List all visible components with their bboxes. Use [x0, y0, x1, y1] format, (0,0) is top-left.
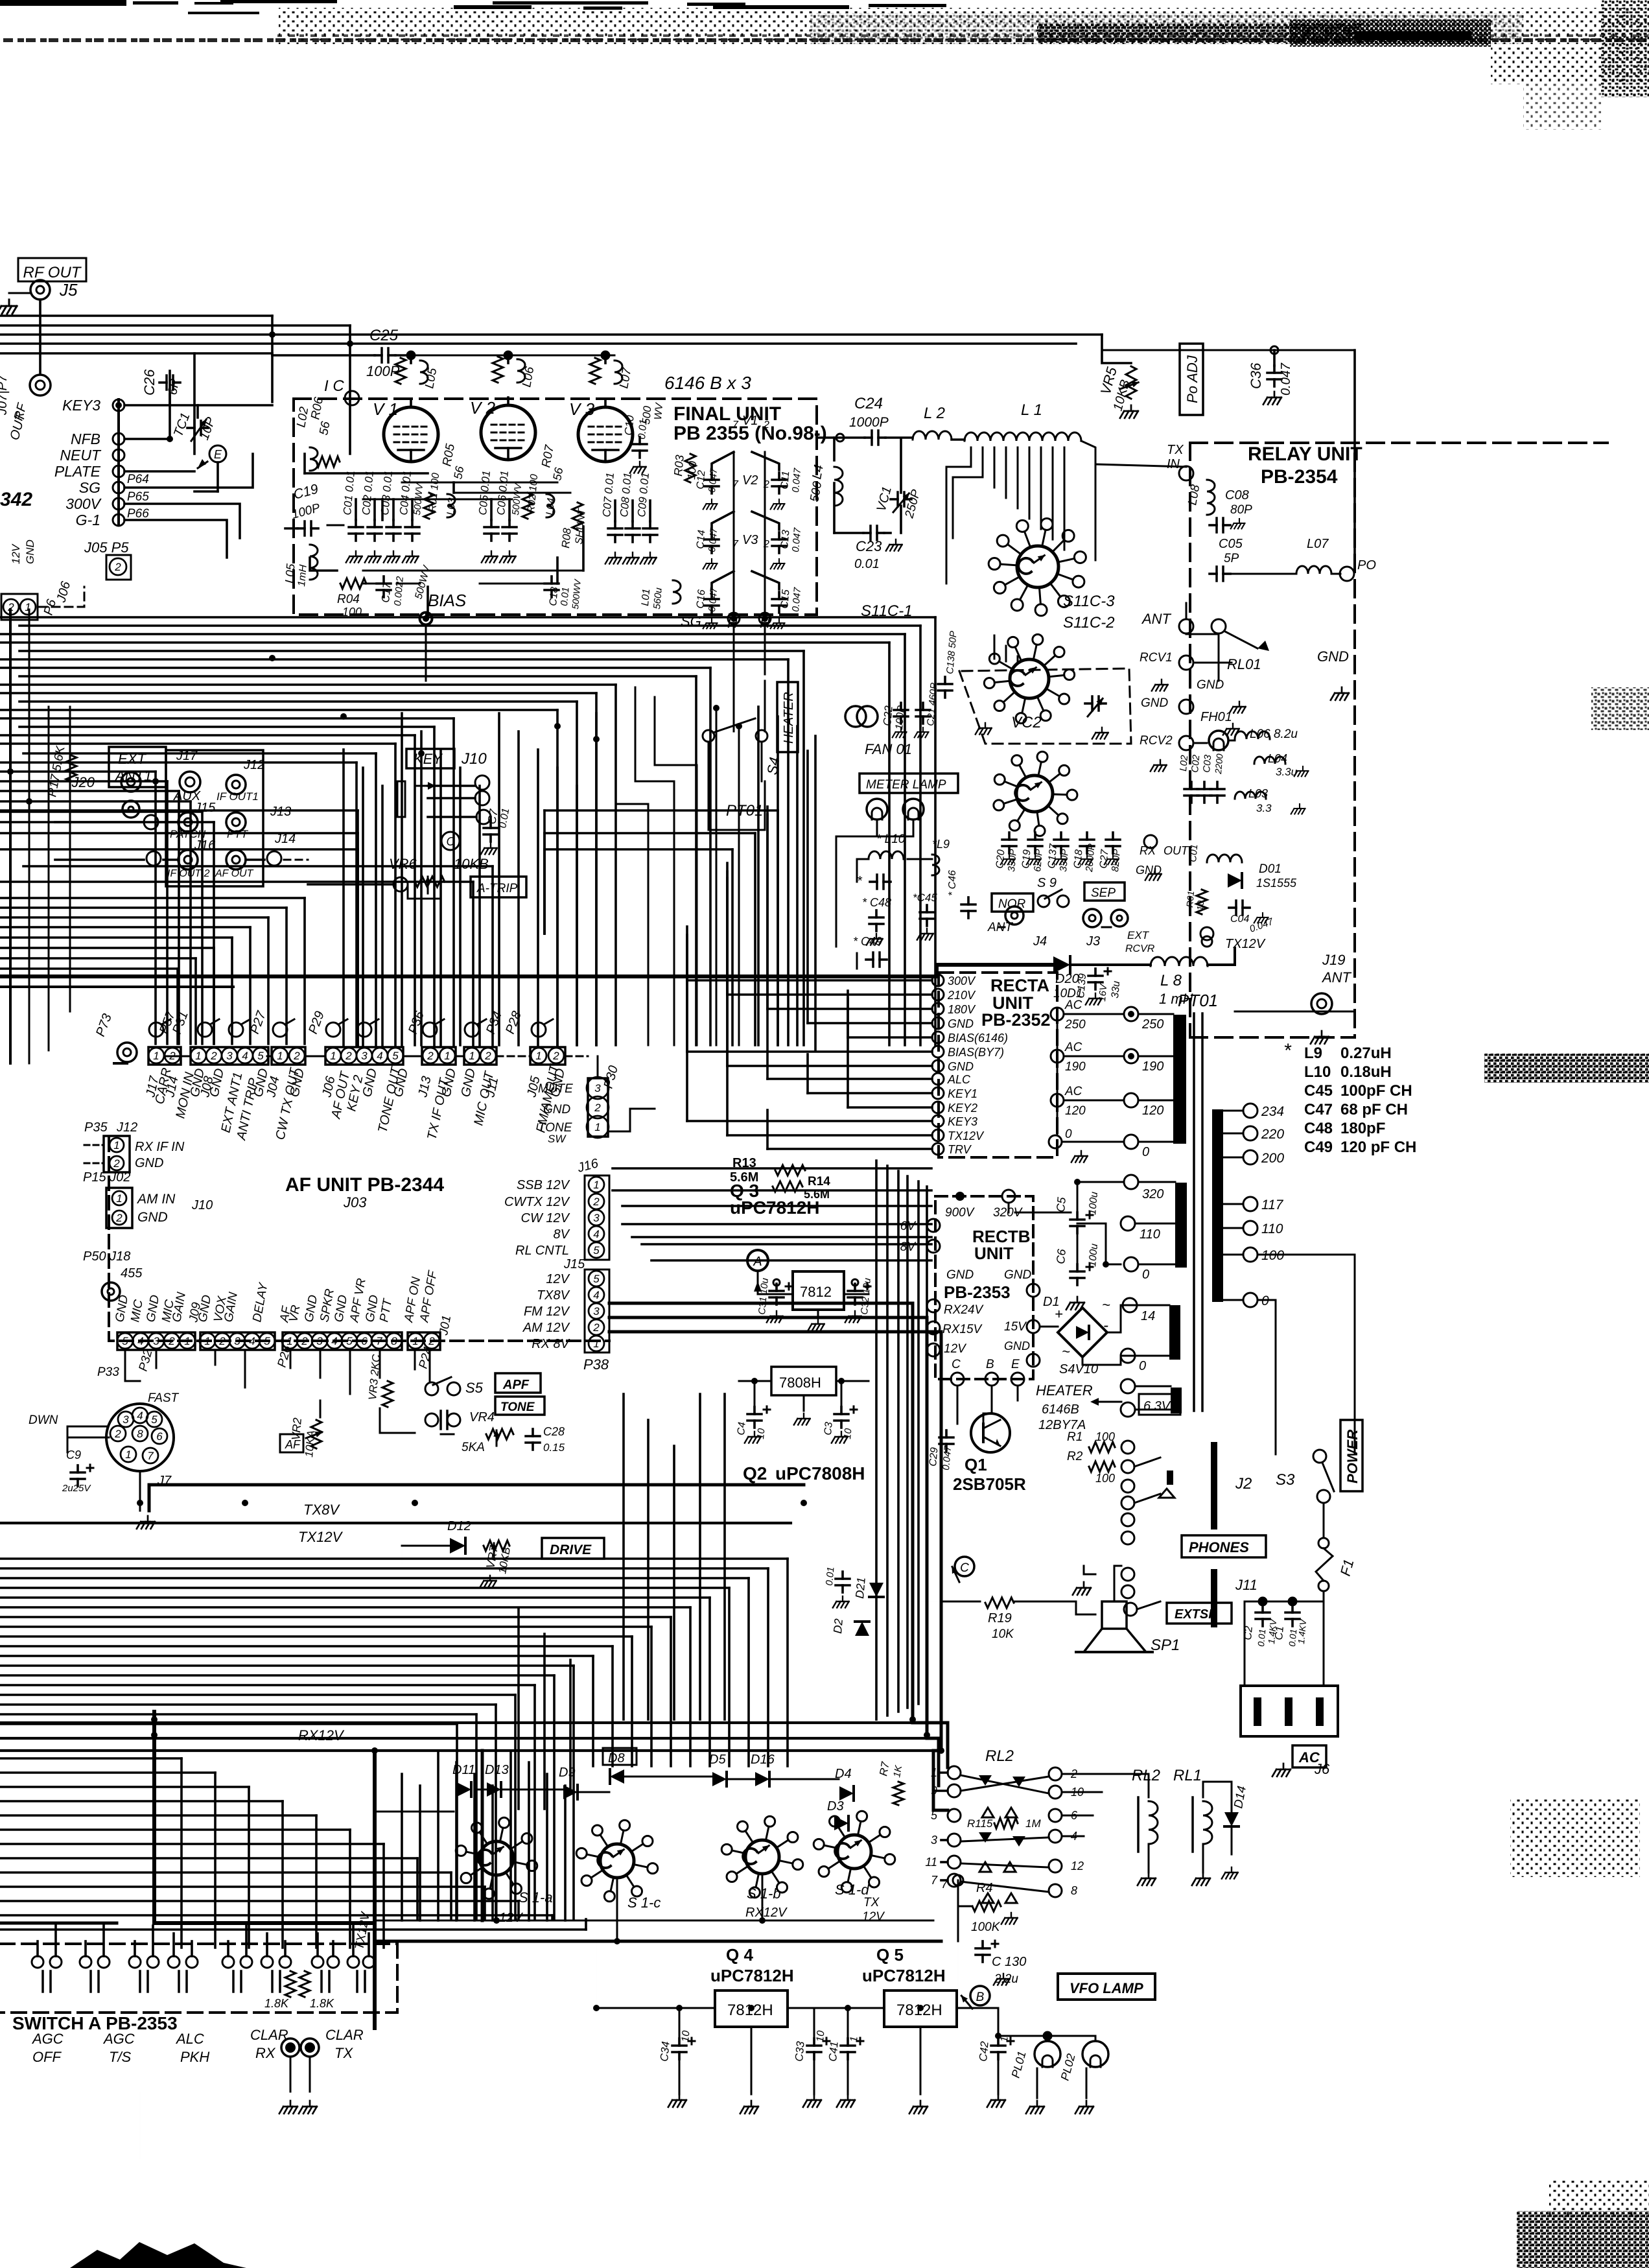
svg-text:C33: C33 [793, 2040, 807, 2062]
capacitor C139 33u [1075, 968, 1122, 1005]
svg-text:1: 1 [287, 1335, 292, 1347]
svg-text:5: 5 [257, 1050, 264, 1062]
wire plate feeds [411, 355, 614, 357]
svg-text:10: 10 [1195, 900, 1206, 911]
tank taps to bandswitch [970, 447, 972, 467]
svg-text:J10: J10 [191, 1198, 213, 1212]
jack AUX J17 [173, 749, 201, 803]
transformer PT01 primary bar [1173, 1015, 1186, 1144]
svg-text:68 pF CH: 68 pF CH [1340, 1101, 1408, 1118]
svg-text:G-1: G-1 [76, 512, 100, 528]
svg-text:10KA: 10KA [303, 1430, 318, 1458]
wire verticals mid lower [624, 1394, 725, 1719]
svg-text:1: 1 [593, 1338, 599, 1350]
label AC boxed [1292, 1745, 1326, 1767]
label METER LAMP boxed [860, 774, 958, 793]
wire L1 right end down [1081, 441, 1095, 560]
svg-text:10KB: 10KB [454, 856, 489, 872]
svg-text:ANT: ANT [1141, 611, 1172, 627]
svg-text:4: 4 [593, 1289, 599, 1301]
svg-text:4: 4 [137, 1335, 143, 1347]
diode D2 [831, 1618, 869, 1636]
svg-text:C12: C12 [695, 470, 708, 490]
diode D20 10D1 [1053, 956, 1082, 1000]
svg-text:3: 3 [234, 1335, 240, 1347]
svg-text:0: 0 [1142, 1145, 1149, 1159]
svg-text:12V: 12V [546, 1272, 570, 1286]
wire bus top-left horizontals [0, 314, 272, 317]
svg-text:J15: J15 [194, 801, 216, 815]
svg-text:J05 P5: J05 P5 [84, 539, 129, 556]
resistor R17 5.6K [45, 744, 76, 798]
svg-text:BIAS(6146): BIAS(6146) [948, 1032, 1008, 1045]
phone jack J2 body [1211, 1442, 1217, 1530]
svg-text:*C45: *C45 [913, 892, 937, 904]
svg-text:180V: 180V [948, 1003, 976, 1016]
svg-text:GND: GND [1136, 864, 1162, 877]
svg-text:C: C [952, 1358, 961, 1371]
resistor R04 100 [337, 578, 366, 619]
svg-text:0.01: 0.01 [1256, 1629, 1267, 1648]
resistor R14 5.6M [773, 1175, 830, 1201]
node E circled [209, 445, 226, 462]
svg-text:1.8K: 1.8K [310, 1997, 334, 2010]
svg-text:4: 4 [242, 1050, 248, 1062]
svg-text:3: 3 [226, 1050, 233, 1062]
svg-text:GND: GND [1141, 696, 1169, 710]
wire tank bottoms [833, 438, 836, 460]
svg-text:2: 2 [592, 1196, 600, 1208]
capacitor C33 10 [793, 2030, 830, 2107]
svg-text:TX: TX [334, 2045, 353, 2061]
svg-text:100u: 100u [1087, 1243, 1100, 1267]
svg-text:C22: C22 [881, 705, 895, 726]
svg-text:2: 2 [113, 1157, 120, 1170]
terminal 250 at PT01 [1124, 1007, 1138, 1021]
svg-text:MUTE: MUTE [538, 1082, 573, 1096]
inductor L07 relay [1296, 537, 1331, 574]
svg-text:D20: D20 [1055, 972, 1079, 986]
capacitor C26 6P [141, 369, 182, 396]
svg-text:0: 0 [1139, 1359, 1146, 1373]
svg-text:620P: 620P [1032, 849, 1045, 872]
capacitor C1 0.01 1.4KV [1272, 1605, 1308, 1647]
wire contact feeds switch A [38, 1926, 369, 1956]
resistor 1.8K right [299, 1971, 334, 2010]
svg-text:120: 120 [1142, 1104, 1164, 1118]
svg-text:A: A [753, 1255, 762, 1269]
svg-text:110: 110 [1140, 1227, 1160, 1242]
svg-text:D5: D5 [709, 1753, 726, 1767]
caps row C20 C19 C137 C18 C27 [994, 833, 1019, 872]
svg-text:2: 2 [293, 1050, 300, 1062]
svg-text:0.01: 0.01 [559, 587, 571, 607]
svg-text:OFF: OFF [32, 2049, 62, 2065]
svg-text:S 1-c: S 1-c [627, 1895, 661, 1911]
svg-text:C42: C42 [977, 2040, 991, 2062]
svg-text:3: 3 [123, 1413, 129, 1426]
svg-text:7: 7 [732, 419, 739, 431]
svg-text:C08: C08 [1225, 488, 1249, 502]
terminal small left of PATCH [144, 815, 158, 829]
dashed frame VC2 [959, 668, 1131, 744]
svg-text:1: 1 [204, 1335, 210, 1347]
svg-text:METER LAMP: METER LAMP [866, 778, 946, 792]
wire speaker [1114, 1566, 1116, 1601]
capacitor C10 0.01 [622, 414, 649, 473]
label EXTSP boxed [1167, 1603, 1232, 1624]
AC connector [1241, 1686, 1338, 1736]
svg-text:RF OUT: RF OUT [23, 264, 82, 281]
wire mesh horizontal bundle upper [0, 617, 935, 1045]
resistor R08 SHUNT [559, 502, 588, 549]
svg-text:GND: GND [24, 539, 36, 564]
resistor R115 1M [967, 1817, 1041, 1830]
inductor L4 500 [808, 464, 843, 506]
svg-text:L 1: L 1 [1021, 401, 1042, 419]
RL2 contacts left column [925, 1766, 961, 1887]
wire D20 to L8 to TX12V [940, 963, 1053, 966]
svg-text:6V: 6V [900, 1220, 917, 1233]
svg-text:L 2: L 2 [924, 405, 945, 422]
svg-text:4: 4 [249, 1335, 255, 1347]
tap 14 [1123, 1298, 1137, 1312]
connector P6 J06 left edge [1, 539, 73, 620]
wire top bus to VR5 [1102, 335, 1131, 363]
svg-text:RX15V: RX15V [942, 1323, 983, 1336]
svg-text:~: ~ [1102, 1297, 1110, 1313]
svg-text:320: 320 [1142, 1187, 1164, 1201]
svg-text:R04: R04 [337, 593, 360, 606]
svg-text:820P: 820P [1110, 849, 1123, 872]
wire drive [402, 1545, 450, 1547]
svg-text:IF OUT 2: IF OUT 2 [167, 868, 210, 879]
terminal ANT [1179, 619, 1193, 633]
svg-text:P64: P64 [127, 473, 149, 486]
capacitor C6 100u [1054, 1243, 1100, 1309]
inductor L04 [544, 494, 557, 517]
RECTA AC tap 0 [1049, 1135, 1062, 1148]
svg-text:5: 5 [151, 1413, 158, 1426]
svg-text:C6: C6 [1054, 1248, 1068, 1265]
scan noise right lower patch [1510, 1799, 1640, 1877]
capacitor C19 100P [285, 482, 322, 536]
svg-text:RCVR: RCVR [1125, 943, 1155, 954]
svg-text:AF OUT: AF OUT [215, 868, 254, 879]
svg-text:HEATER: HEATER [782, 692, 796, 744]
svg-text:6P: 6P [165, 377, 182, 396]
connector strip J17/J14 2pin [148, 1047, 181, 1065]
plate choke L06 [493, 357, 537, 388]
jack IF OUT1 J12 [216, 758, 264, 803]
junction dots texture [7, 331, 1296, 2039]
svg-text:3.3: 3.3 [1256, 802, 1272, 814]
caps C01-C04 row under V1 [341, 470, 363, 563]
svg-text:TONE: TONE [500, 1400, 535, 1414]
capacitor C48 star [862, 896, 891, 931]
svg-text:C05: C05 [1219, 537, 1243, 551]
capacitor C24 1000P [849, 395, 889, 445]
svg-text:E: E [1011, 1358, 1020, 1371]
strip J09 5pin [200, 1332, 275, 1350]
svg-text:Q 5: Q 5 [876, 1945, 904, 1965]
diode D16 [751, 1753, 775, 1786]
svg-text:* C49: * C49 [853, 935, 882, 948]
svg-text:PKH: PKH [180, 2049, 209, 2065]
svg-text:R03: R03 [672, 455, 686, 477]
svg-text:SEP: SEP [1091, 886, 1116, 900]
strip J-mic 5pin [117, 1332, 195, 1350]
rotary S1-d [837, 1835, 871, 1869]
svg-text:R14: R14 [808, 1175, 830, 1188]
svg-text:110: 110 [1261, 1222, 1283, 1236]
svg-text:100u: 100u [1087, 1191, 1100, 1215]
svg-text:12V: 12V [862, 1910, 885, 1924]
svg-text:J6: J6 [1314, 1761, 1330, 1777]
svg-text:C29: C29 [928, 1447, 941, 1467]
jack J20 [121, 772, 141, 792]
svg-text:8: 8 [137, 1428, 143, 1440]
lamp meter 1 [867, 799, 887, 820]
label DRIVE boxed [542, 1538, 604, 1559]
svg-text:AM IN: AM IN [136, 1192, 176, 1207]
svg-text:100P: 100P [366, 363, 400, 379]
svg-text:V 2: V 2 [470, 398, 496, 418]
svg-text:330P: 330P [1058, 849, 1071, 872]
pin 900V [955, 1192, 965, 1201]
jack EXT RCVR [1111, 910, 1155, 954]
svg-text:P15 J02: P15 J02 [83, 1170, 130, 1185]
svg-text:*L9: *L9 [932, 838, 950, 851]
diode D5 [709, 1753, 727, 1786]
svg-text:VR4: VR4 [469, 1410, 495, 1424]
wire TX feeders [0, 1721, 913, 1724]
inductor L10 starred [857, 833, 906, 889]
svg-text:GND: GND [135, 1156, 163, 1170]
svg-text:PB-2353: PB-2353 [944, 1282, 1011, 1302]
key jack contacts [475, 775, 489, 790]
svg-text:2: 2 [484, 1050, 491, 1062]
wire riser from bus [271, 316, 274, 402]
svg-text:2200: 2200 [1213, 753, 1225, 775]
svg-text:3: 3 [593, 1305, 600, 1317]
label VFO LAMP boxed [1058, 1974, 1155, 2000]
pin 6V [927, 1219, 940, 1232]
svg-text:C: C [960, 1561, 969, 1575]
svg-text:uPC7808H: uPC7808H [775, 1463, 865, 1483]
resistor R1 100 [1067, 1430, 1115, 1452]
svg-text:SG: SG [681, 613, 701, 630]
RL2 arrows filled [979, 1775, 1025, 1847]
wire strip row joins [165, 1056, 191, 1057]
svg-text:0.27uH: 0.27uH [1340, 1045, 1392, 1062]
svg-text:S 1-a: S 1-a [519, 1889, 553, 1906]
wire Q1 leads [957, 1386, 959, 1424]
wire RL2 left contact stubs [939, 1771, 948, 1774]
diode D9 [559, 1766, 578, 1799]
wires V-caps to bottom SG H H [733, 452, 735, 615]
svg-text:TRV: TRV [948, 1143, 972, 1156]
wire verticals into S1 rotaries [402, 1751, 565, 1920]
resistor R4 100K [971, 1881, 1018, 1934]
svg-text:R19: R19 [988, 1611, 1012, 1625]
svg-text:8V: 8V [900, 1240, 917, 1254]
scan noise right edge [1601, 0, 1649, 97]
relay coil RL1 [1192, 1797, 1212, 1885]
svg-text:1: 1 [444, 1050, 450, 1062]
svg-text:300V: 300V [948, 975, 976, 987]
svg-text:5KA: 5KA [462, 1441, 485, 1454]
label APF boxed [495, 1373, 541, 1393]
svg-text:RL2: RL2 [1132, 1767, 1160, 1784]
inductor L03 3.3 [1235, 787, 1305, 814]
svg-text:56: 56 [317, 420, 333, 436]
tap 0 rect [1121, 1349, 1135, 1363]
tap heater top [1121, 1379, 1135, 1393]
transformer PT01 sec bar 320-110-0 [1175, 1183, 1187, 1268]
jack below J20 [123, 801, 139, 818]
svg-text:4: 4 [137, 1410, 143, 1422]
connector J15 pins 5-1 [522, 1270, 609, 1353]
wire verticals to diode row [517, 1608, 520, 1809]
svg-text:12V: 12V [944, 1342, 967, 1356]
jack J11 body [1211, 1569, 1217, 1627]
svg-text:GND: GND [948, 1060, 974, 1073]
svg-text:P66: P66 [127, 507, 149, 521]
jack J19 ANT [1311, 952, 1352, 1044]
capacitor C29 0.047 [928, 1430, 953, 1471]
svg-text:AM 12V: AM 12V [522, 1321, 570, 1335]
wire P30 joins [597, 1056, 599, 1078]
label HEATER boxed rotated [777, 682, 798, 752]
svg-text:GND: GND [1004, 1268, 1032, 1282]
capacitor C138 50P [938, 630, 959, 698]
svg-text:1.8K: 1.8K [264, 1997, 289, 2010]
caps C05 C06 row under V2 [476, 470, 498, 563]
svg-text:2: 2 [168, 1335, 175, 1347]
svg-text:Q2: Q2 [743, 1463, 767, 1483]
label POWER boxed rotated [1340, 1420, 1362, 1491]
svg-text:P33: P33 [97, 1365, 119, 1379]
capacitor C21 460P [915, 682, 940, 737]
connector P35 J12 RX IF IN [84, 1120, 185, 1172]
connector J5 RF OUT [18, 258, 86, 300]
resistor R01 100 [424, 473, 441, 519]
svg-text:OUT: OUT [1164, 844, 1189, 857]
svg-text:PTT: PTT [227, 828, 249, 840]
switch contacts group2 [129, 1956, 198, 1992]
svg-text:L03: L03 [1248, 787, 1268, 800]
svg-text:0.047: 0.047 [790, 467, 803, 493]
resistor R01 10 [1184, 890, 1207, 914]
wire P35 dashes [84, 1144, 104, 1146]
svg-text:PB-2354: PB-2354 [1261, 466, 1338, 488]
svg-text:BIAS(BY7): BIAS(BY7) [948, 1046, 1004, 1059]
wire bottom exits [139, 2092, 141, 2159]
wire bundle P38 to RECTB horizontals [613, 1168, 931, 1260]
svg-text:RL01: RL01 [1227, 656, 1261, 672]
svg-text:D8: D8 [608, 1751, 625, 1766]
svg-text:J10: J10 [461, 750, 487, 768]
svg-text:VR6: VR6 [389, 856, 417, 872]
switch contacts group1 [32, 1956, 110, 1992]
svg-text:1: 1 [412, 1335, 418, 1347]
lamp PL02 [1058, 2041, 1108, 2114]
label PHONES boxed [1182, 1535, 1266, 1557]
diode D14 [1224, 1785, 1249, 1826]
label EXT ANT boxed [109, 747, 166, 787]
wire VR6 area [308, 883, 393, 886]
capacitor C32 10u [845, 1277, 873, 1323]
svg-text:T/S: T/S [109, 2049, 132, 2065]
capacitor C7 0.01 [481, 807, 512, 855]
svg-text:2: 2 [592, 1321, 600, 1334]
svg-text:PT01: PT01 [1178, 991, 1218, 1010]
svg-text:80P: 80P [1230, 503, 1252, 517]
svg-text:D12: D12 [447, 1519, 471, 1533]
svg-text:330P: 330P [1006, 849, 1019, 872]
svg-text:RCV1: RCV1 [1140, 651, 1173, 665]
RECTA AC tap 190 [1051, 1050, 1064, 1063]
transformer PT01 heater bar [1171, 1388, 1182, 1413]
svg-text:ANT1: ANT1 [114, 768, 152, 784]
svg-text:SW: SW [548, 1133, 567, 1145]
svg-text:2: 2 [218, 1335, 226, 1347]
scan noise bottom left blob [70, 2242, 246, 2268]
variable cap VC2 [1011, 696, 1106, 731]
svg-text:14: 14 [1141, 1309, 1155, 1323]
svg-text:560u: 560u [651, 587, 664, 609]
svg-text:10: 10 [680, 2030, 692, 2042]
wire thick stair to CLAR [154, 1712, 375, 1923]
svg-text:AC: AC [1064, 998, 1082, 1012]
svg-text:RCV2: RCV2 [1140, 734, 1173, 748]
wire Q4 leads [596, 2007, 715, 2009]
svg-text:PHONES: PHONES [1189, 1539, 1249, 1555]
svg-text:C14: C14 [695, 530, 708, 550]
wire relay interior [1218, 634, 1220, 681]
node A circled [747, 1250, 768, 1271]
jack J11 contacts [1121, 1568, 1134, 1581]
capacitor C45 star [913, 892, 937, 926]
capacitor C28 0.15 [526, 1425, 565, 1454]
svg-text:SP1: SP1 [1151, 1636, 1180, 1654]
svg-text:C24: C24 [854, 395, 883, 412]
wire dashed from P6 [39, 587, 84, 607]
connector P15 J02 AM IN [83, 1170, 176, 1228]
wire CLAR lamps down [290, 2057, 292, 2092]
wire 0 tap down [1257, 1300, 1276, 1454]
svg-text:2: 2 [763, 419, 769, 431]
svg-text:RX12V: RX12V [298, 1727, 345, 1743]
bridge rectifier D1 S4V10 [1043, 1295, 1110, 1376]
jack J3 [1083, 909, 1101, 949]
pin 12V [927, 1343, 940, 1356]
svg-text:RX IF IN: RX IF IN [135, 1140, 185, 1154]
svg-text:10: 10 [755, 1428, 767, 1440]
connector strip J06 5pin [325, 1047, 403, 1065]
wire bundle vertical right of Q3 [876, 1161, 927, 1719]
svg-text:RX: RX [255, 2045, 276, 2061]
wire PT01 top to J19 [1235, 1011, 1355, 1013]
wire meter lamp rail [836, 836, 913, 838]
plate choke L05 [395, 358, 440, 390]
svg-text:33u: 33u [1110, 980, 1122, 998]
svg-text:J07|P7: J07|P7 [0, 374, 10, 416]
svg-text:GND: GND [948, 1017, 974, 1030]
svg-text:TX12V: TX12V [1225, 937, 1266, 951]
svg-text:1000P: 1000P [849, 415, 889, 430]
